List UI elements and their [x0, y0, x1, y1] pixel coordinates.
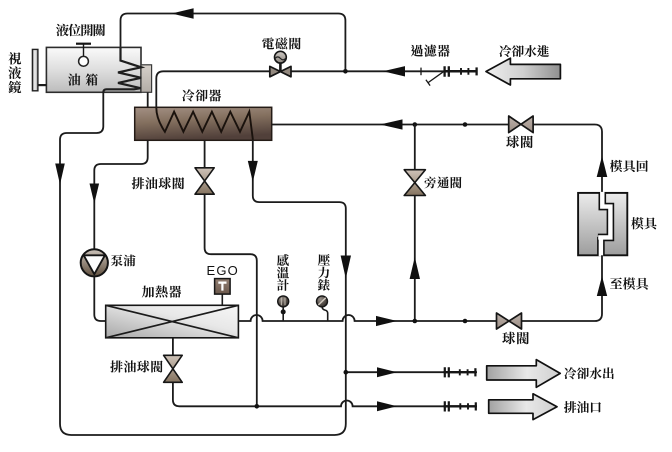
flow arrow (down) above pump	[90, 184, 100, 204]
flow arrow (up) mold return	[597, 156, 608, 177]
flow arrow (down) below cooler	[248, 161, 258, 182]
wire: tank to cooler	[147, 93, 149, 108]
cooler 冷卻器	[135, 107, 272, 140]
junction node: bypass joins heater outlet	[413, 319, 418, 324]
label: 旁通閥	[424, 177, 461, 189]
ball valve 球閥 (lower)	[497, 313, 522, 329]
label (vertical): 視液鏡	[8, 52, 21, 93]
wire: cooling water out line	[346, 371, 477, 373]
label: 冷卻水進	[499, 45, 549, 57]
pressure gauge 壓力錶	[317, 296, 328, 321]
pump 泵浦	[81, 249, 108, 276]
oil tank 油箱	[46, 47, 141, 92]
label: 球閥 top	[506, 135, 533, 148]
wire: solenoid/filter line (cooler top to filter)	[156, 71, 477, 107]
svg-text:EGO: EGO	[207, 263, 240, 278]
label: 箱	[86, 73, 98, 85]
flow arrow (down) on right drain vertical	[341, 256, 351, 279]
wire: heater drain via ball valve to oil outlet line	[173, 338, 477, 407]
junction node: cooler drain joins oil outlet line	[254, 404, 259, 409]
hose ticks on oil outlet	[444, 401, 477, 411]
filter symbol: hose ticks and strainer	[421, 68, 444, 86]
hose ticks on water out	[444, 367, 477, 377]
wire: cooler water outlet down-right-down to drain node	[253, 140, 346, 372]
heater 加熱器	[106, 305, 239, 338]
flow arrow (down) on left line	[55, 164, 65, 185]
label: 泵浦	[111, 255, 136, 267]
wire: bypass line	[414, 125, 416, 322]
label: 球閥 lower	[502, 332, 529, 345]
flow arrow (right) on heater outlet	[376, 316, 397, 326]
mold 模具	[578, 192, 627, 256]
cooler internal coil zigzag	[156, 108, 253, 140]
label (vertical): 壓力錶	[318, 254, 330, 291]
big arrow: oil outlet 排油口	[489, 394, 557, 420]
wire: heater outlet line with crossover hops	[238, 255, 602, 321]
wire: tank drain to left edge, bottom line, up to water-out node	[60, 93, 346, 436]
heating coil inside tank	[103, 48, 141, 93]
flow arrow (right) on oil outlet	[377, 401, 397, 411]
label: 過濾器	[411, 45, 450, 57]
flow arrow (right) on water out	[377, 367, 397, 377]
drain ball valve 排油球閥 (cooler)	[195, 168, 214, 194]
junction node: top return joins solenoid line	[343, 69, 348, 74]
label: 模具	[631, 217, 656, 229]
flow arrow (up) on bypass	[410, 257, 420, 279]
flow arrow (left) on solenoid line	[383, 66, 405, 76]
label: 模具回	[610, 160, 648, 172]
label: 油	[68, 73, 80, 85]
wire: cooler drain via ball valve	[205, 140, 257, 406]
junction node: bypass tee on top line	[413, 122, 418, 127]
tank side partition panel	[141, 65, 152, 93]
label: 至模具	[610, 277, 648, 289]
label: 排油球閥 cooler	[132, 177, 184, 189]
node on heater outlet	[463, 319, 468, 324]
bypass valve 旁通閥	[404, 170, 425, 196]
solenoid valve 電磁閥	[270, 51, 291, 77]
flow arrow (up) to mold	[597, 276, 607, 296]
wire: top return line (tank to solenoid-line junction)	[121, 14, 346, 72]
label: 加熱器	[142, 285, 181, 297]
node on top line	[463, 122, 468, 127]
wire: cooler to pump to heater	[94, 140, 147, 321]
label: 液位開關	[56, 24, 105, 36]
label: 電磁閥	[262, 37, 301, 49]
sight glass 視液鏡	[32, 49, 46, 90]
big arrow: cooling water in 冷卻水進	[486, 58, 560, 85]
flow arrow (left) on top return line	[172, 8, 194, 19]
EGO thermostat box	[215, 279, 231, 306]
label: 冷卻水出	[564, 367, 614, 379]
ball valve 球閥 (top)	[509, 116, 533, 133]
flow arrow (left) toward cooler	[380, 119, 403, 129]
label (vertical): 感溫計	[277, 254, 289, 291]
label: 冷卻器	[182, 89, 221, 101]
temperature sensor 感溫計	[278, 296, 289, 321]
wire: cooler outlet to mold return (top right line)	[272, 125, 602, 194]
label: 排油口	[564, 401, 601, 413]
big arrow: cooling water out 冷卻水出	[487, 360, 561, 388]
label: 排油球閥 heater	[110, 360, 162, 372]
drain ball valve 排油球閥 (heater)	[164, 355, 183, 382]
junction node: water-out tee	[344, 370, 349, 375]
liquid level switch 液位開關	[76, 44, 91, 66]
